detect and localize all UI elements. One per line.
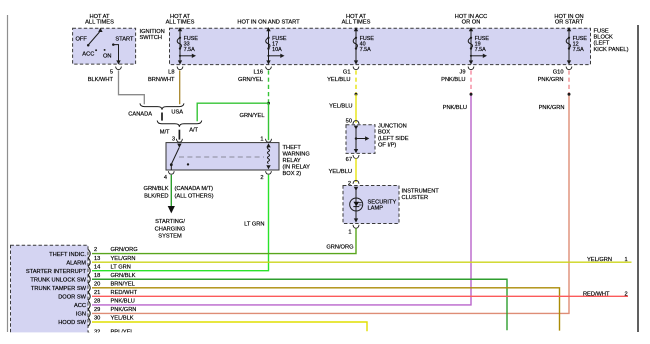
svg-text:PNK/GRN: PNK/GRN	[538, 77, 564, 83]
svg-text:PNK/GRN: PNK/GRN	[111, 307, 137, 313]
svg-text:PNK/BLU: PNK/BLU	[111, 299, 135, 305]
svg-text:L8: L8	[168, 70, 174, 76]
svg-text:5: 5	[110, 70, 113, 76]
svg-text:RELAY: RELAY	[283, 158, 301, 164]
label STARTING/CHARGING SYSTEM	[155, 219, 186, 239]
svg-text:SECURITY: SECURITY	[368, 199, 397, 205]
svg-text:LT GRN: LT GRN	[111, 264, 131, 270]
svg-text:STARTING/: STARTING/	[155, 219, 185, 225]
right label RED/WHT 2	[583, 291, 628, 297]
svg-text:1: 1	[625, 257, 628, 263]
connector L8	[168, 67, 183, 76]
label THEFT WARNING RELAY (IN RELAY BOX 2)	[283, 145, 311, 177]
connector cup relay pin 4	[168, 171, 174, 174]
svg-text:BOX 2): BOX 2)	[283, 171, 302, 177]
svg-text:BRN/YEL: BRN/YEL	[111, 281, 135, 287]
svg-text:GRN/ORG: GRN/ORG	[326, 245, 353, 251]
fuse 40 value label	[360, 36, 375, 53]
wire name GRN/BLK (CANADA M/T)	[144, 186, 214, 192]
wire GRN/YEL branch to A/T brace	[197, 103, 268, 121]
wire BLK/WHT from ignition switch	[119, 70, 145, 104]
wire GRN/BLK row 18	[92, 279, 507, 330]
svg-text:2: 2	[94, 247, 97, 253]
svg-text:ACC: ACC	[82, 51, 94, 57]
svg-text:21: 21	[94, 290, 100, 296]
wire PNK/BLU solid from fuse 19 to row 28	[92, 94, 471, 305]
wire PNK/GRN solid from fuse 12 to row 29	[92, 94, 569, 313]
svg-text:GRN/BLK: GRN/BLK	[111, 273, 136, 279]
svg-text:HOT IN ON AND START: HOT IN ON AND START	[237, 20, 300, 26]
connector cup relay pin 1	[266, 139, 272, 142]
junction dot PNK/GRN splice	[568, 93, 571, 96]
connector row pin 29 PNK/GRN	[76, 307, 137, 318]
ignition switch box	[73, 28, 136, 64]
junction box	[346, 125, 375, 154]
connector cup cluster pin 1	[353, 225, 359, 228]
svg-text:ALL TIMES: ALL TIMES	[342, 20, 371, 26]
svg-text:YEL/BLK: YEL/BLK	[111, 316, 134, 322]
svg-text:JUNCTION: JUNCTION	[378, 123, 407, 129]
arrow to starting/charging system	[168, 206, 175, 213]
svg-text:BLOCK: BLOCK	[594, 35, 613, 41]
svg-text:GRN/BLK: GRN/BLK	[144, 186, 169, 192]
svg-text:YEL/BLU: YEL/BLU	[329, 104, 352, 110]
svg-text:TRUNK UNLOCK SW: TRUNK UNLOCK SW	[30, 277, 86, 283]
svg-text:1: 1	[348, 230, 351, 236]
label INSTRUMENT CLUSTER	[402, 189, 440, 201]
connector row pin 32 PPL/YEL	[88, 330, 133, 341]
wire GRN/BLK from relay pin 4	[170, 175, 172, 206]
svg-text:USA: USA	[171, 110, 183, 116]
junction box internal wire	[354, 126, 358, 154]
svg-text:4: 4	[164, 175, 167, 181]
wire name BLK/RED (ALL OTHERS)	[144, 194, 213, 200]
svg-text:OF I/P): OF I/P)	[378, 142, 396, 148]
svg-text:TRUNK TAMPER SW: TRUNK TAMPER SW	[31, 286, 87, 292]
svg-text:2: 2	[260, 175, 263, 181]
svg-text:START: START	[115, 37, 134, 43]
fuse 40 symbol	[353, 27, 358, 65]
cluster entry arrow	[354, 187, 358, 198]
ignition switch START contact dot	[112, 43, 115, 46]
connector row pin 30 YEL/BLK	[58, 316, 134, 327]
svg-text:BRN/WHT: BRN/WHT	[148, 77, 175, 83]
svg-text:14: 14	[94, 264, 100, 270]
brace CANADA/USA	[140, 103, 184, 109]
svg-text:13: 13	[94, 256, 100, 262]
svg-text:18: 18	[94, 273, 100, 279]
svg-text:STARTER INTERRUPT: STARTER INTERRUPT	[26, 269, 87, 275]
right page border line	[637, 25, 639, 332]
node stub between braces	[161, 113, 163, 121]
svg-text:RED/WHT: RED/WHT	[111, 290, 138, 296]
relay switch arm	[172, 148, 180, 164]
ignition switch ACC contact dot	[95, 49, 97, 51]
svg-text:KICK PANEL): KICK PANEL)	[594, 47, 629, 53]
wire PNK/GRN dashed segment	[568, 70, 570, 94]
svg-text:YEL/BLU: YEL/BLU	[329, 169, 352, 175]
svg-text:SWITCH: SWITCH	[140, 35, 162, 41]
ignition feed label HOT AT ALL TIMES	[85, 14, 114, 26]
brace M/T A/T	[157, 121, 202, 127]
relay coil	[266, 143, 270, 169]
svg-text:G1: G1	[343, 70, 351, 76]
fuse 33 symbol	[177, 27, 196, 65]
svg-text:PNK/BLU: PNK/BLU	[443, 105, 467, 111]
svg-text:7.5A: 7.5A	[475, 47, 486, 53]
wire LT GRN from relay pin 2 to connector row 14	[92, 175, 269, 271]
svg-text:(LEFT: (LEFT	[594, 41, 610, 47]
svg-text:LAMP: LAMP	[368, 206, 384, 212]
connector row pin 21 RED/WHT	[58, 290, 137, 301]
left connector box (theft warning control unit)	[11, 245, 89, 337]
svg-text:RED/WHT: RED/WHT	[583, 291, 610, 297]
svg-text:SYSTEM: SYSTEM	[158, 233, 182, 239]
svg-text:J9: J9	[459, 70, 465, 76]
left page border line	[7, 15, 9, 332]
connector cup junction box pin 67	[353, 155, 359, 158]
svg-text:YEL/GRN: YEL/GRN	[587, 257, 612, 263]
svg-text:BLK/RED: BLK/RED	[144, 194, 168, 200]
svg-text:OR ON: OR ON	[462, 20, 481, 26]
svg-text:7.5A: 7.5A	[573, 47, 584, 53]
junction dot PNK/BLU splice	[470, 93, 473, 96]
relay contact dot	[187, 163, 189, 165]
connector cap cluster pin 2	[353, 180, 359, 183]
fuse 17 value label	[272, 36, 287, 53]
svg-text:GRN/ORG: GRN/ORG	[111, 247, 138, 253]
label SECURITY LAMP	[368, 199, 397, 211]
svg-text:IGN: IGN	[76, 312, 86, 318]
svg-text:LT GRN: LT GRN	[244, 222, 264, 228]
connector cap junction box pin 50	[353, 121, 359, 124]
svg-text:OR START: OR START	[555, 20, 584, 26]
svg-text:L16: L16	[254, 70, 264, 76]
connector row pin 18 GRN/BLK	[30, 273, 135, 284]
junction dot YEL/BLU splice	[355, 93, 358, 96]
wire RED/WHT row 21 to right edge	[92, 295, 628, 297]
label FUSE BLOCK (LEFT KICK PANEL)	[594, 29, 629, 53]
svg-text:30: 30	[94, 316, 100, 322]
svg-text:67: 67	[346, 157, 352, 163]
svg-text:29: 29	[94, 307, 100, 313]
wire GRN/YEL dashed from fuse 17	[268, 70, 270, 103]
wire YEL/GRN row 13 to right edge	[92, 261, 632, 263]
wire YEL/BLK row 30	[92, 322, 367, 331]
svg-text:INSTRUMENT: INSTRUMENT	[402, 189, 440, 195]
fuse 19 symbol	[468, 27, 487, 65]
label JUNCTION BOX (LEFT SIDE OF I/P)	[378, 123, 409, 148]
svg-text:GRN/YEL: GRN/YEL	[240, 113, 265, 119]
fuse 12 symbol	[566, 27, 571, 65]
svg-text:ACC: ACC	[74, 303, 86, 309]
svg-text:WARNING: WARNING	[283, 152, 310, 158]
svg-text:HOOD SW: HOOD SW	[58, 320, 86, 326]
svg-text:BOX: BOX	[378, 130, 390, 136]
svg-text:ALL TIMES: ALL TIMES	[85, 20, 114, 26]
svg-text:10A: 10A	[272, 47, 282, 53]
svg-text:G10: G10	[553, 70, 564, 76]
security lamp internal wire	[355, 198, 357, 211]
bottom crop band	[0, 332, 650, 344]
svg-text:(ALL OTHERS): (ALL OTHERS)	[175, 194, 214, 200]
wire BRN/YEL row 20	[92, 288, 560, 331]
fuse block box (left kick panel)	[170, 28, 591, 64]
wire stub to relay pin 3	[178, 130, 180, 140]
junction box branch arrow	[355, 136, 370, 140]
svg-text:7.5A: 7.5A	[184, 47, 195, 53]
wire YEL/BLU junction box to instrument cluster	[355, 158, 357, 182]
svg-text:CHARGING: CHARGING	[155, 226, 186, 232]
fuse 17 symbol	[266, 27, 285, 65]
svg-text:(LEFT SIDE: (LEFT SIDE	[378, 136, 409, 142]
relay pin 3 entry arrow	[177, 144, 181, 148]
svg-text:(IN RELAY: (IN RELAY	[283, 165, 311, 171]
svg-text:ALL TIMES: ALL TIMES	[166, 20, 195, 26]
svg-text:PNK/BLU: PNK/BLU	[441, 77, 465, 83]
svg-text:PNK/GRN: PNK/GRN	[539, 105, 565, 111]
connector L16	[254, 67, 272, 76]
security lamp LED symbol	[353, 202, 361, 207]
connector row pin 2 GRN/ORG	[49, 247, 138, 258]
connector 5	[110, 67, 122, 76]
svg-text:A/T: A/T	[189, 127, 198, 133]
theft warning relay box U1	[166, 143, 279, 170]
svg-text:50: 50	[346, 119, 352, 125]
svg-text:YEL/BLU: YEL/BLU	[327, 77, 350, 83]
connector row pin 20 BRN/YEL	[31, 281, 135, 292]
svg-text:DOOR SW: DOOR SW	[58, 295, 86, 301]
connector row pin 14 LT GRN	[26, 264, 131, 275]
svg-text:BLK/WHT: BLK/WHT	[88, 77, 114, 83]
security lamp circle	[350, 198, 363, 211]
ignition switch output wire to pin 5	[113, 45, 120, 65]
label IGNITION SWITCH	[140, 29, 165, 41]
svg-text:1: 1	[260, 136, 263, 142]
relay switch stub to pin 4	[170, 165, 172, 170]
svg-text:CLUSTER: CLUSTER	[402, 195, 429, 201]
connector G10	[553, 67, 572, 76]
svg-text:THEFT INDIC.: THEFT INDIC.	[49, 252, 86, 258]
ignition switch arm	[87, 28, 103, 47]
connector row pin 28 PNK/BLU	[74, 299, 135, 310]
svg-text:ON: ON	[103, 54, 112, 60]
svg-text:CANADA: CANADA	[128, 111, 152, 117]
connector G1	[343, 67, 359, 76]
connector row pin 13 YEL/GRN	[66, 256, 135, 267]
svg-text:3: 3	[172, 136, 175, 142]
relay mechanical dashed link	[179, 156, 264, 158]
wire YEL/BLU dashed from fuse 40	[355, 70, 357, 94]
connector cup relay pin 2	[266, 171, 272, 174]
instrument cluster box	[343, 186, 399, 224]
relay switch pivot dot	[170, 163, 173, 166]
connector J9	[459, 67, 473, 76]
cluster exit arrow	[354, 211, 358, 223]
svg-text:THEFT: THEFT	[283, 145, 302, 151]
svg-text:ALARM: ALARM	[66, 260, 86, 266]
svg-text:GRN/YEL: GRN/YEL	[238, 77, 263, 83]
svg-text:20: 20	[94, 281, 100, 287]
svg-text:7.5A: 7.5A	[360, 47, 371, 53]
svg-text:OFF: OFF	[76, 37, 88, 43]
wire GRN/YEL to relay pin 1	[268, 103, 270, 140]
wire PNK/BLU dashed segment	[470, 70, 472, 94]
right label YEL/GRN 1	[587, 257, 628, 263]
wire GRN/ORG from cluster to connector row 2	[92, 228, 356, 253]
fuse 12 value label	[573, 36, 588, 53]
svg-text:(CANADA M/T): (CANADA M/T)	[175, 186, 214, 192]
ignition switch ON contact dot	[104, 49, 106, 51]
connector cup relay pin 3	[176, 139, 182, 142]
junction dot GRN/YEL splice	[267, 102, 270, 105]
wire BRN/WHT from fuse 33	[179, 70, 181, 104]
wire YEL/BLU to junction box	[355, 94, 357, 123]
svg-text:28: 28	[94, 299, 100, 305]
fuse 33 value label	[184, 36, 199, 53]
svg-text:M/T: M/T	[160, 130, 170, 136]
svg-text:YEL/GRN: YEL/GRN	[111, 256, 136, 262]
fuse 19 value label	[475, 36, 490, 53]
svg-text:2: 2	[625, 291, 628, 297]
